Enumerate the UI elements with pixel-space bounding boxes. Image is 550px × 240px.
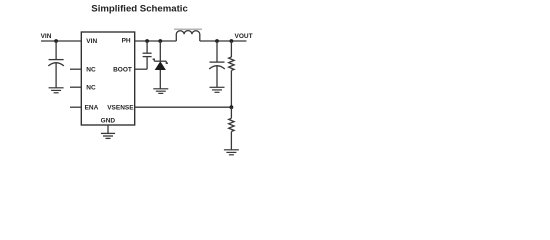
node: feedback divider junction bbox=[230, 39, 234, 43]
node: input cap junction bbox=[54, 39, 58, 43]
ground for C3 bbox=[210, 87, 225, 92]
ground for IC GND pin bbox=[101, 125, 115, 138]
node: output cap junction bbox=[215, 39, 219, 43]
wire: PH to inductor bbox=[135, 40, 177, 42]
svg-text:BOOT: BOOT bbox=[113, 67, 132, 74]
svg-text:NC: NC bbox=[86, 85, 96, 92]
svg-text:ENA: ENA bbox=[85, 105, 99, 112]
svg-text:Simplified Schematic: Simplified Schematic bbox=[91, 3, 188, 14]
ground for C1 bbox=[49, 88, 64, 93]
node: diode junction bbox=[158, 39, 162, 43]
wire: VSENSE to divider bbox=[135, 106, 232, 108]
wire: BOOT pin to boot cap bbox=[135, 68, 147, 70]
capacitor C1 input bulk bbox=[48, 41, 64, 88]
svg-text:GND: GND bbox=[101, 117, 116, 124]
inductor L1 bbox=[176, 31, 200, 41]
pin stub NC row 2 bbox=[70, 68, 81, 70]
pin stub ENA bbox=[70, 106, 81, 108]
node: VSENSE junction bbox=[230, 105, 234, 109]
resistor R1 feedback top bbox=[229, 41, 234, 107]
ground for D1 bbox=[153, 89, 168, 94]
pin stub NC row 3 bbox=[70, 86, 81, 88]
capacitor C2 bootstrap bbox=[143, 41, 152, 69]
diode D1 schottky catch bbox=[153, 41, 168, 89]
svg-text:VSENSE: VSENSE bbox=[107, 105, 134, 112]
resistor R2 feedback bottom bbox=[229, 107, 234, 150]
node: boot cap junction bbox=[145, 39, 149, 43]
wire: inductor to VOUT bbox=[200, 40, 247, 42]
capacitor C3 output bbox=[209, 41, 225, 87]
svg-text:VOUT: VOUT bbox=[235, 33, 253, 40]
svg-text:PH: PH bbox=[122, 38, 131, 45]
inductor L1 core bar bbox=[174, 28, 202, 30]
svg-text:VIN: VIN bbox=[86, 38, 97, 45]
svg-text:VIN: VIN bbox=[41, 33, 52, 40]
IC box U1 bbox=[81, 32, 134, 125]
wire: VIN input wire bbox=[41, 40, 81, 42]
svg-text:NC: NC bbox=[86, 67, 96, 74]
ground for R2 bbox=[224, 150, 239, 155]
